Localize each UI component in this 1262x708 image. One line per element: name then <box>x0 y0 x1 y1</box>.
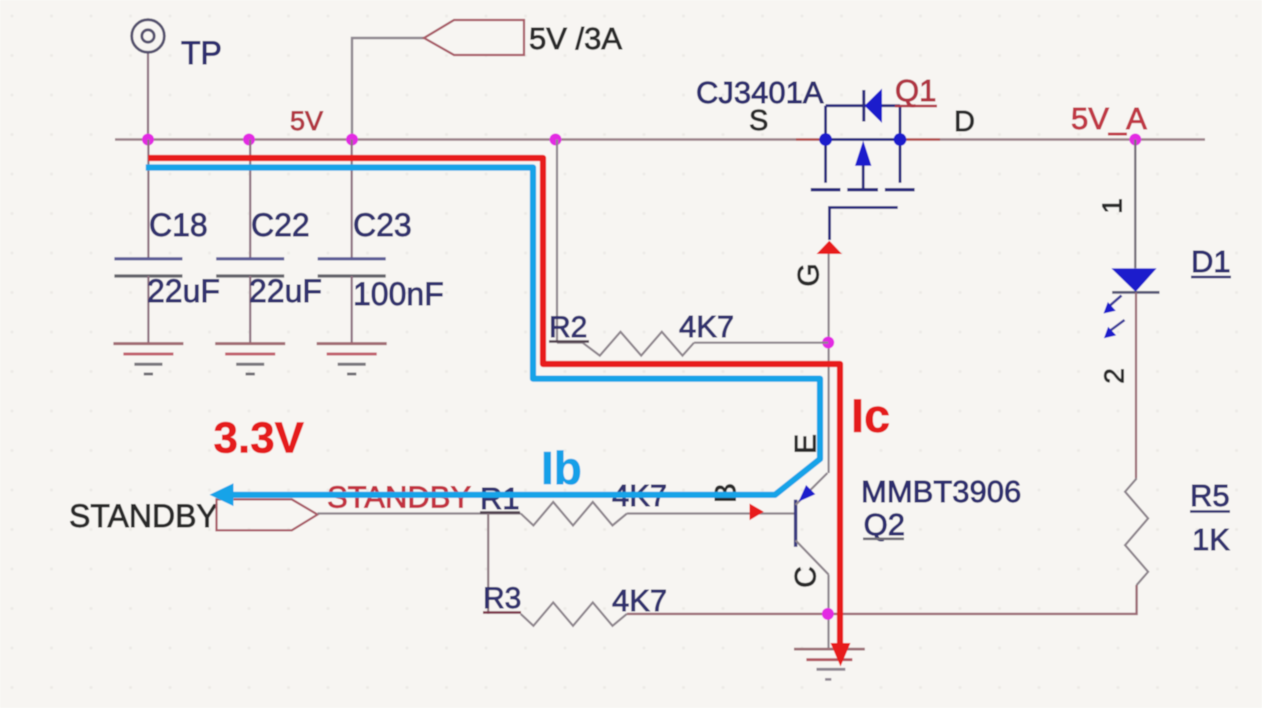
designator Q1 <box>895 73 937 108</box>
designator Q2 <box>863 507 905 542</box>
port 5V/3A <box>424 20 524 55</box>
svg-text:C22: C22 <box>251 207 310 243</box>
svg-text:4K7: 4K7 <box>679 309 734 344</box>
transistor Q1 CJ3401A (P-MOSFET) <box>811 89 915 241</box>
LED arrow 2 <box>1111 320 1125 330</box>
svg-text:1K: 1K <box>1192 522 1230 557</box>
svg-text:TP: TP <box>181 35 222 71</box>
blue current path Ib <box>146 168 820 507</box>
wire R1 to Q2 base <box>627 512 794 514</box>
svg-text:R1: R1 <box>480 481 520 516</box>
capacitor C22 <box>216 140 284 344</box>
wire 5V_A down to D1 <box>1134 140 1136 269</box>
svg-text:D: D <box>954 106 975 138</box>
blue arrowhead <box>210 483 234 506</box>
collector diagonal <box>796 540 829 574</box>
wire R3 to collector junction <box>627 613 828 615</box>
svg-text:5V /3A: 5V /3A <box>529 21 622 56</box>
body diode triangle <box>865 89 883 124</box>
top line <box>826 104 900 107</box>
svg-text:100nF: 100nF <box>353 276 444 312</box>
red arrowhead at ground <box>831 643 851 667</box>
svg-text:5V_A: 5V_A <box>1071 101 1147 136</box>
wire gate down to Q2 emitter <box>827 250 829 473</box>
svg-text:C18: C18 <box>149 207 208 243</box>
ground (C22) <box>215 344 285 374</box>
junction dot rail 3 <box>346 134 358 146</box>
ground (C18) <box>113 344 183 374</box>
svg-text:22uF: 22uF <box>147 273 220 309</box>
body diode bar <box>862 90 865 122</box>
svg-text:1: 1 <box>1097 198 1128 214</box>
transistor Q2 MMBT3906 (PNP) <box>796 473 829 649</box>
junction dot R2/gate <box>822 337 834 349</box>
svg-text:C: C <box>790 566 823 588</box>
svg-text:Ib: Ib <box>541 442 582 494</box>
channel bar left <box>811 188 841 191</box>
substrate arrow <box>862 164 865 190</box>
svg-text:MMBT3906: MMBT3906 <box>861 474 1021 509</box>
junction dot rail 4 (R2 tap) <box>550 134 562 146</box>
svg-text:R3: R3 <box>483 582 521 615</box>
junction dot rail 2 <box>243 134 255 146</box>
wire 5V rail <box>115 138 796 140</box>
wire rail tap to R2 <box>556 140 558 343</box>
svg-text:C23: C23 <box>353 207 412 243</box>
svg-text:5V: 5V <box>290 106 323 136</box>
capacitor C18 <box>114 140 182 344</box>
LED arrow 1 <box>1110 296 1122 306</box>
wire R1 to R3 <box>487 514 489 614</box>
svg-text:R2: R2 <box>549 311 587 344</box>
S vertical <box>824 106 827 183</box>
body line between S and D <box>826 138 900 141</box>
resistor R2 <box>557 332 828 356</box>
channel bar mid <box>847 188 878 191</box>
resistor R5 <box>1125 478 1148 585</box>
label R1 <box>480 481 520 516</box>
D junction dot <box>894 133 907 146</box>
ground (Q2) <box>794 649 865 679</box>
svg-text:3.3V: 3.3V <box>214 414 305 463</box>
emitter diagonal <box>796 473 828 505</box>
svg-text:2: 2 <box>1099 368 1130 384</box>
red arrowhead at gate <box>817 241 843 254</box>
ground (C23) <box>317 344 387 374</box>
label D1 <box>1191 244 1231 279</box>
label R3 <box>483 582 521 615</box>
junction dot 5V_A <box>1129 134 1141 146</box>
pin D wire <box>900 138 940 141</box>
emitter arrow (PNP) <box>799 485 816 502</box>
D vertical <box>899 106 902 183</box>
collector wire down <box>827 575 829 649</box>
svg-text:STANDBY: STANDBY <box>69 498 218 534</box>
wire D1 to R5 <box>1135 293 1137 479</box>
S junction dot <box>819 133 832 146</box>
base bar <box>794 500 797 547</box>
junction dot collector <box>822 608 834 620</box>
wire R5 bottom <box>828 585 1137 614</box>
channel bar right <box>885 188 915 191</box>
label R5 <box>1190 478 1230 513</box>
diode D1 (LED) <box>1104 268 1160 338</box>
junction dot rail 1 <box>142 134 154 146</box>
test point TP <box>132 20 165 140</box>
red arrowhead at base wire <box>750 504 764 521</box>
svg-text:22uF: 22uF <box>249 273 322 309</box>
red current path Ic <box>148 158 850 667</box>
pin S wire <box>796 138 826 141</box>
label R2 <box>549 311 589 344</box>
svg-text:R5: R5 <box>1190 478 1230 513</box>
harness wire to port <box>352 38 424 140</box>
svg-text:Q1: Q1 <box>895 73 936 108</box>
resistor R3 <box>521 602 627 625</box>
resistor R1 <box>521 502 627 525</box>
svg-text:G: G <box>793 263 826 286</box>
wire rail D-side <box>940 138 1205 140</box>
svg-text:Q2: Q2 <box>864 507 905 542</box>
svg-text:S: S <box>749 105 768 137</box>
capacitor C23 <box>318 140 386 344</box>
svg-text:D1: D1 <box>1191 244 1231 279</box>
wire port to R1 <box>318 512 521 514</box>
gate line <box>830 208 898 241</box>
port STANDBY <box>217 499 318 530</box>
svg-text:Ic: Ic <box>851 389 890 442</box>
